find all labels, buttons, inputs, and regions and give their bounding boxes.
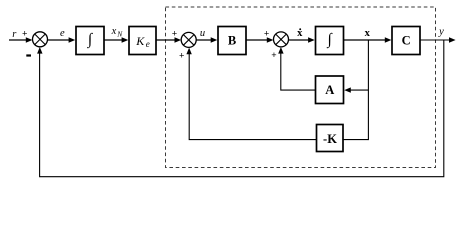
svg-text:+: +: [172, 30, 177, 40]
arrowhead into C: [385, 37, 392, 42]
wire A output to S3: [281, 53, 316, 91]
wire I1 to Ke: [104, 39, 124, 41]
svg-text:A: A: [325, 83, 334, 97]
wire -K output to S2: [189, 53, 316, 140]
arrowhead into B: [211, 37, 218, 42]
summing junction S1: [33, 32, 48, 47]
arrowhead up into S2: [186, 48, 191, 55]
arrowhead into Ke: [122, 37, 129, 42]
wire S2 to B: [196, 39, 213, 41]
arrowhead into S3: [267, 37, 274, 42]
integrator block I2: [316, 27, 344, 55]
minus sign at summer S1: [26, 54, 31, 56]
svg-text:+: +: [264, 30, 269, 40]
arrowhead into I2: [308, 37, 315, 42]
svg-text:u: u: [200, 28, 205, 39]
svg-text:x: x: [365, 28, 371, 39]
svg-text:e: e: [146, 39, 150, 49]
wire Ke to S2: [156, 39, 177, 41]
integrator block I1: [76, 27, 104, 55]
wire B to S3: [246, 39, 269, 41]
output arrowhead: [449, 37, 456, 42]
svg-text:N: N: [116, 30, 123, 39]
svg-text:x: x: [111, 26, 117, 37]
arrowhead into S1: [26, 37, 33, 42]
wire S1 to integrator I1: [48, 39, 72, 41]
arrowhead into S2: [175, 37, 182, 42]
dashed observer box: [166, 7, 436, 168]
svg-text:C: C: [402, 34, 411, 48]
svg-text:B: B: [228, 34, 236, 48]
svg-text:+: +: [179, 51, 184, 61]
svg-text:K: K: [135, 34, 145, 48]
feedback gain block -K: [317, 125, 344, 152]
wire r to S1: [9, 39, 28, 41]
svg-text:e: e: [60, 28, 65, 39]
arrowhead into I1: [69, 37, 76, 42]
wire C to output y: [420, 39, 451, 41]
svg-text:-K: -K: [323, 132, 337, 146]
gain block B: [218, 27, 246, 55]
summing junction S3: [274, 32, 289, 47]
gain block C: [392, 27, 420, 55]
summing junction S2: [181, 32, 196, 47]
arrowhead into A: [344, 87, 351, 92]
wire x-node tap down: [367, 40, 369, 140]
wire S3 to integrator I2: [289, 39, 312, 41]
svg-text:+: +: [271, 51, 276, 61]
arrowhead up into S1: [37, 47, 42, 54]
wire I2 to C: [344, 39, 388, 41]
feedback block A: [316, 76, 344, 104]
wire tap to -K input: [343, 139, 368, 141]
arrowhead up into S3: [278, 47, 283, 54]
svg-text:y: y: [438, 26, 444, 37]
gain block Ke: [129, 27, 156, 55]
wire tap to A input: [349, 89, 368, 91]
outer feedback wire y to S1: [40, 40, 444, 177]
